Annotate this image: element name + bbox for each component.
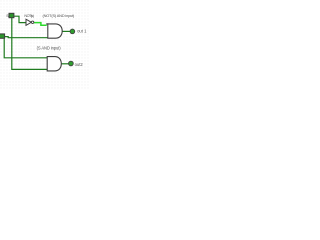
input R (left-edge input box, value square) xyxy=(0,34,5,38)
wire from input S to inverter input xyxy=(14,16,26,22)
svg-text:(NOT(S) AND input): (NOT(S) AND input) xyxy=(43,13,76,18)
output out 1 (circle indicator) xyxy=(70,29,75,34)
wire from input S down and right to bottom AND gate lower input xyxy=(12,18,47,70)
wire top AND gate output to out 1 xyxy=(62,30,70,32)
dark pin stub at top AND gate upper input xyxy=(46,23,48,25)
inverter U1 (NOT gate) xyxy=(26,19,34,25)
wire from input R right to top AND gate lower input xyxy=(5,37,48,38)
wire from input R down and right to bottom AND gate upper input xyxy=(4,39,47,58)
svg-text:out2: out2 xyxy=(75,62,84,67)
svg-text:(S AND input): (S AND input) xyxy=(37,45,62,50)
svg-text:NOT(s): NOT(s) xyxy=(24,14,34,18)
svg-text:out 1: out 1 xyxy=(77,28,87,33)
wire NOT output (logic high, bright) xyxy=(34,23,47,26)
input S (top-left input box, value square) xyxy=(9,13,14,17)
top AND gate U2 xyxy=(48,24,62,38)
output out2 (circle indicator) xyxy=(69,61,74,66)
bottom AND gate U3 xyxy=(47,57,61,71)
wire bottom AND gate output to out2 xyxy=(61,63,68,65)
